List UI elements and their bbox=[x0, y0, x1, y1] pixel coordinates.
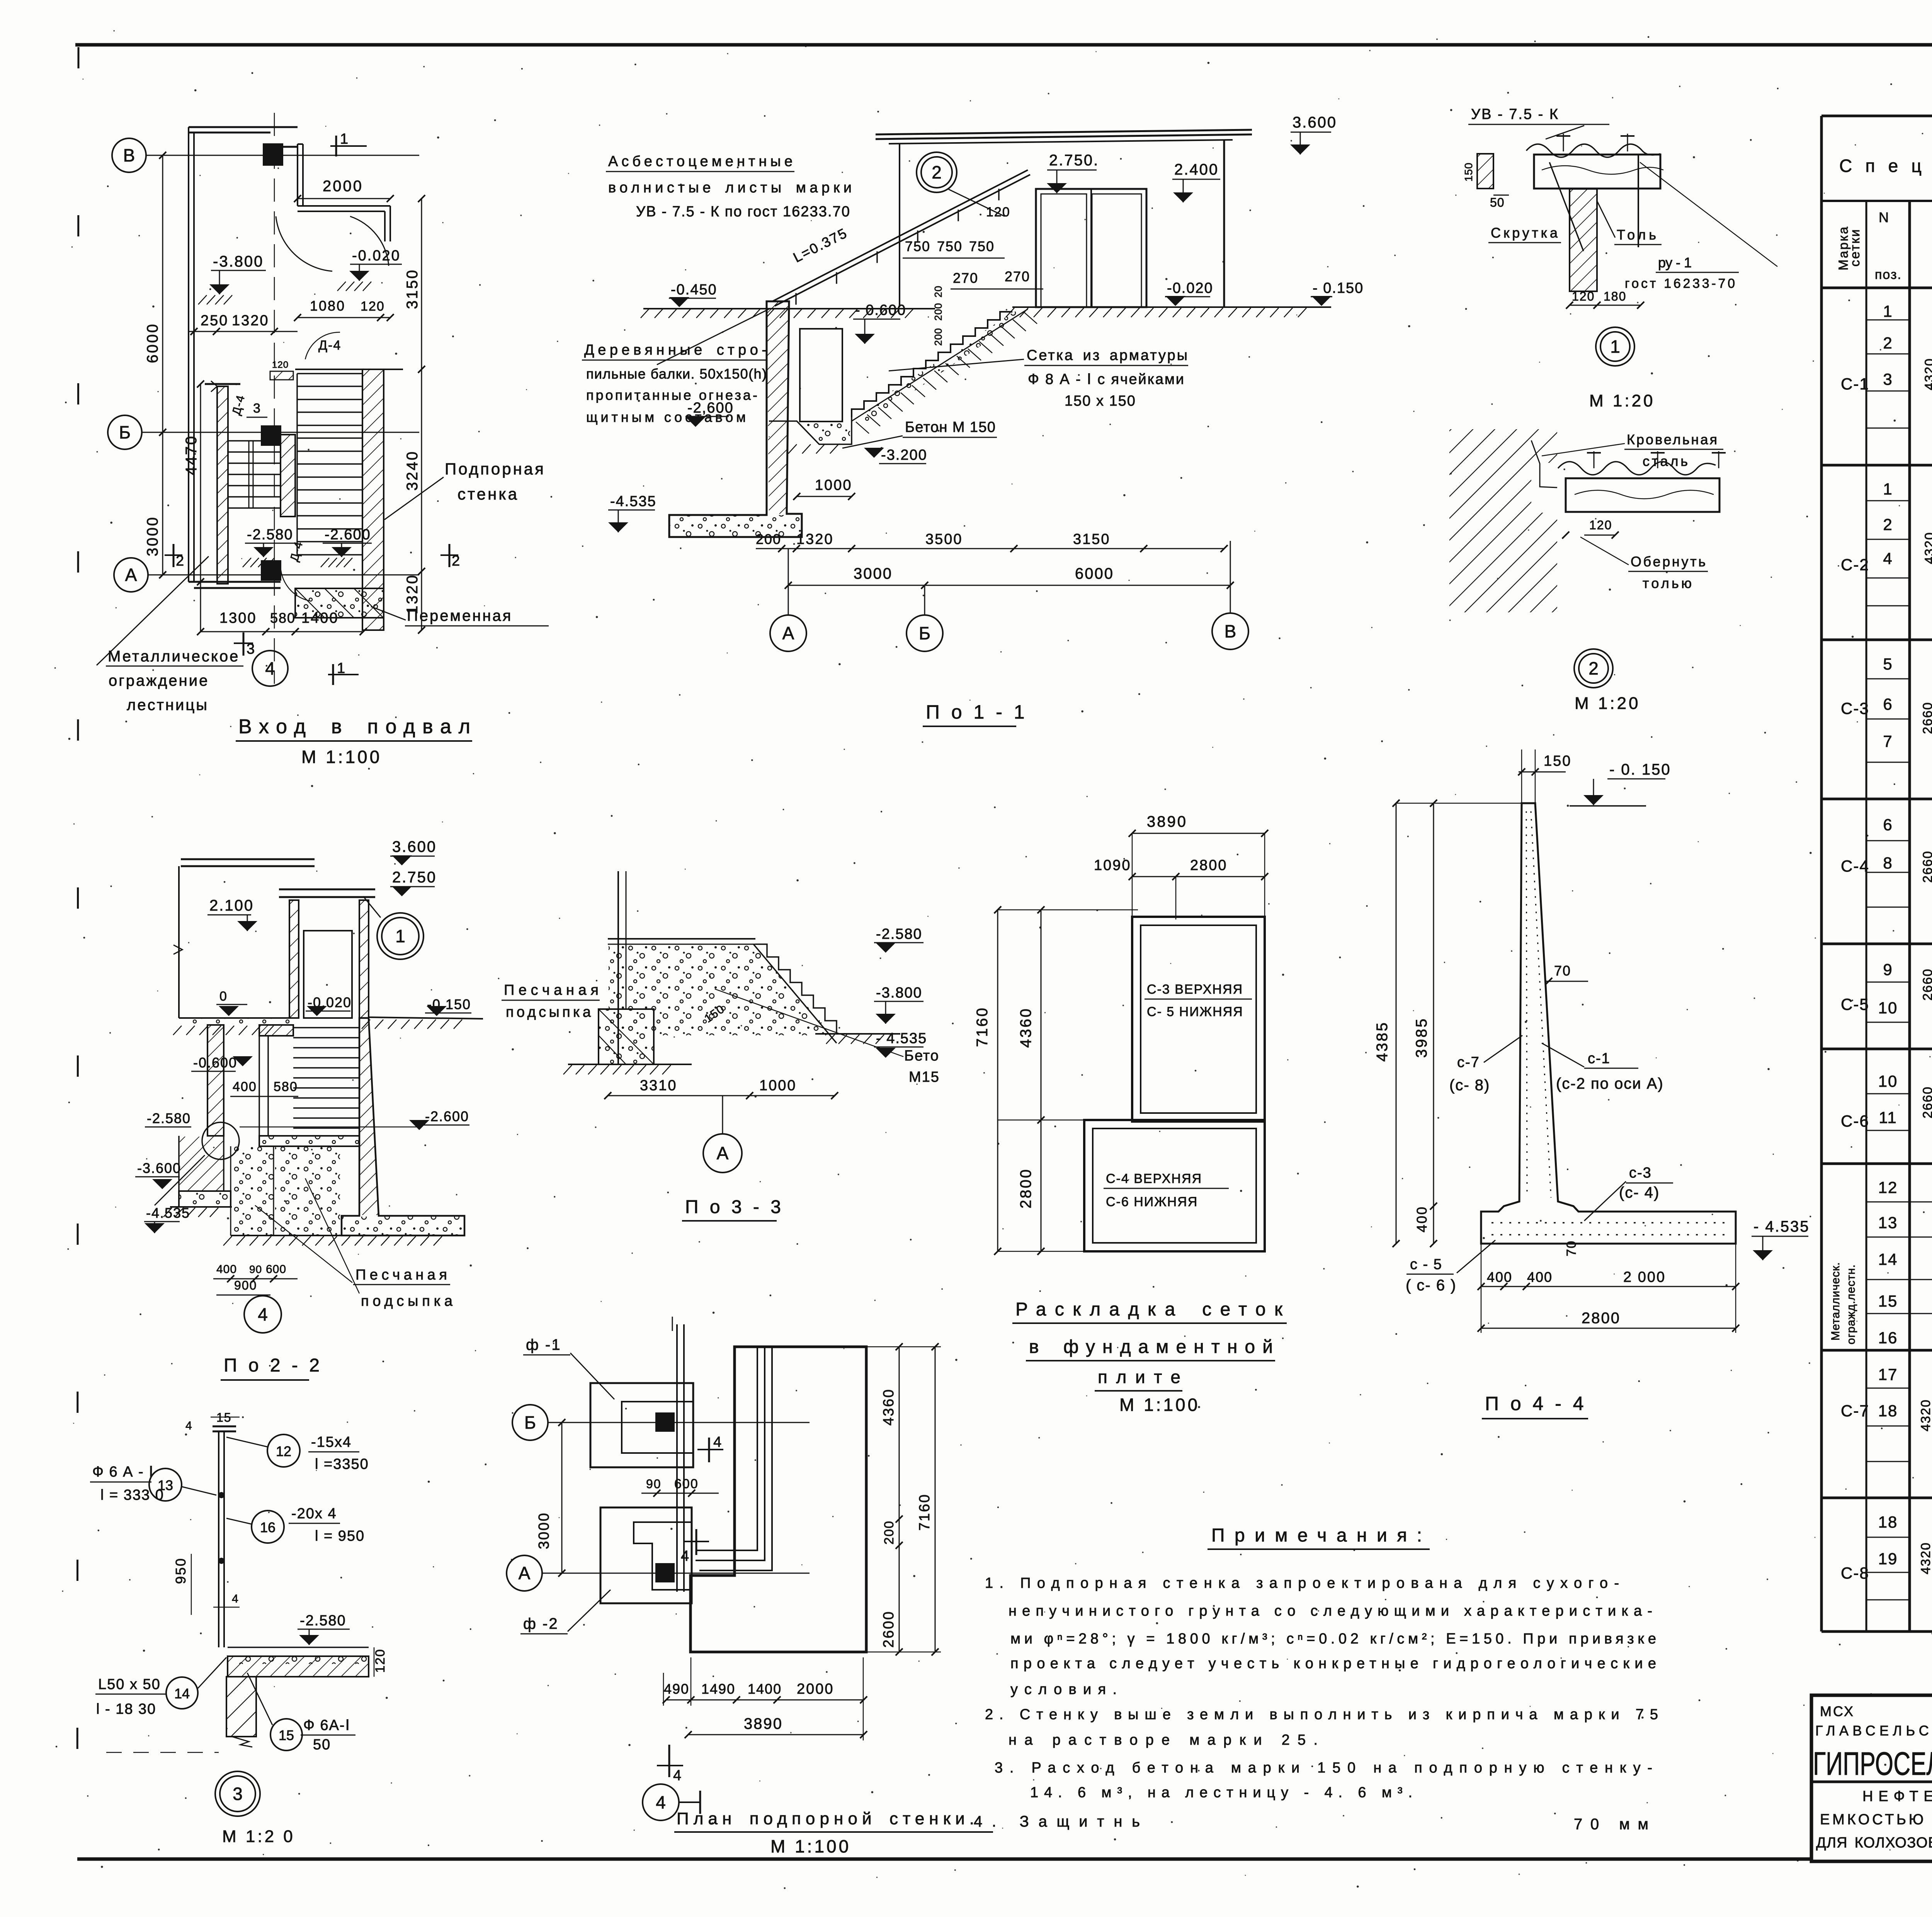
svg-text:l = 950: l = 950 bbox=[315, 1528, 365, 1544]
svg-text:14: 14 bbox=[174, 1686, 190, 1701]
svg-text:17: 17 bbox=[1878, 1365, 1898, 1383]
svg-text:4320: 4320 bbox=[1918, 1542, 1932, 1574]
svg-text:2: 2 bbox=[452, 553, 461, 569]
svg-text:Бетон М 150: Бетон М 150 bbox=[905, 419, 995, 435]
svg-text:7160: 7160 bbox=[974, 1006, 991, 1047]
svg-text:270: 270 bbox=[953, 270, 978, 286]
svg-text:4: 4 bbox=[713, 1434, 722, 1450]
svg-text:поз.: поз. bbox=[1875, 267, 1902, 282]
svg-text:П о 2 - 2: П о 2 - 2 bbox=[224, 1355, 323, 1376]
svg-text:600: 600 bbox=[674, 1477, 699, 1491]
svg-text:С- 5 НИЖНЯЯ: С- 5 НИЖНЯЯ bbox=[1147, 1004, 1243, 1019]
svg-text:490: 490 bbox=[664, 1681, 689, 1697]
svg-text:-4.535: -4.535 bbox=[146, 1205, 190, 1221]
svg-text:Бето: Бето bbox=[904, 1048, 939, 1064]
svg-text:А: А bbox=[717, 1143, 729, 1163]
svg-text:(с- 4): (с- 4) bbox=[1619, 1184, 1660, 1201]
svg-text:10: 10 bbox=[1878, 1072, 1898, 1090]
svg-text:120: 120 bbox=[272, 360, 289, 370]
svg-text:(с-2 по оси А): (с-2 по оси А) bbox=[1556, 1075, 1664, 1092]
svg-text:16: 16 bbox=[260, 1519, 276, 1535]
svg-text:3: 3 bbox=[247, 641, 255, 657]
svg-text:с-3: с-3 bbox=[1629, 1165, 1652, 1181]
svg-text:Подпорная: Подпорная bbox=[445, 460, 546, 478]
svg-text:М15: М15 bbox=[909, 1069, 940, 1085]
svg-text:120: 120 bbox=[986, 205, 1010, 219]
svg-text:П о 1 - 1: П о 1 - 1 bbox=[926, 701, 1028, 723]
svg-text:-0.600: -0.600 bbox=[193, 1055, 237, 1071]
svg-text:С-2: С-2 bbox=[1841, 556, 1869, 574]
svg-text:А: А bbox=[125, 565, 137, 585]
svg-text:- 4.535: - 4.535 bbox=[876, 1030, 927, 1047]
svg-text:М 1:100: М 1:100 bbox=[301, 747, 382, 767]
svg-text:-2.580: -2.580 bbox=[247, 527, 293, 543]
svg-text:2: 2 bbox=[1883, 334, 1893, 352]
svg-text:ограждение: ограждение bbox=[109, 672, 209, 689]
svg-text:стенка: стенка bbox=[457, 485, 519, 503]
svg-text:4: 4 bbox=[185, 1419, 193, 1432]
svg-text:N: N bbox=[1879, 209, 1889, 225]
svg-text:С-6: С-6 bbox=[1841, 1112, 1869, 1130]
svg-text:l =3350: l =3350 bbox=[315, 1456, 369, 1472]
svg-text:150 х 150: 150 х 150 bbox=[1065, 393, 1136, 409]
svg-text:750: 750 bbox=[905, 238, 930, 254]
svg-text:Б: Б bbox=[524, 1412, 536, 1433]
svg-text:6: 6 bbox=[1883, 695, 1893, 713]
svg-text:А: А bbox=[519, 1563, 531, 1583]
svg-text:на растворе марки 25.: на растворе марки 25. bbox=[1009, 1732, 1318, 1748]
svg-text:М 1:100: М 1:100 bbox=[770, 1836, 851, 1856]
svg-text:2 000: 2 000 bbox=[1623, 1269, 1666, 1285]
svg-text:4320: 4320 bbox=[1918, 1399, 1932, 1431]
svg-text:- 0. 150: - 0. 150 bbox=[1609, 761, 1671, 778]
svg-text:70: 70 bbox=[1564, 1240, 1579, 1256]
svg-text:1: 1 bbox=[1610, 336, 1620, 357]
svg-text:50: 50 bbox=[1490, 195, 1505, 209]
svg-text:1320: 1320 bbox=[232, 313, 269, 329]
svg-text:270: 270 bbox=[1005, 269, 1030, 284]
svg-text:2000: 2000 bbox=[797, 1681, 834, 1697]
svg-text:ф -1: ф -1 bbox=[526, 1336, 561, 1353]
svg-text:12: 12 bbox=[1878, 1178, 1898, 1196]
svg-text:-3.600: -3.600 bbox=[137, 1160, 181, 1176]
svg-text:2660: 2660 bbox=[1920, 1086, 1932, 1118]
svg-text:М 1:2 0: М 1:2 0 bbox=[222, 1827, 295, 1846]
svg-text:4: 4 bbox=[265, 658, 275, 678]
svg-text:гост 16233-70: гост 16233-70 bbox=[1625, 276, 1735, 291]
svg-text:15: 15 bbox=[1878, 1292, 1898, 1310]
svg-text:-15х4: -15х4 bbox=[311, 1434, 352, 1450]
svg-text:ГЛАВСЕЛЬСТРОЙПРОЕКТ: ГЛАВСЕЛЬСТРОЙПРОЕКТ bbox=[1815, 1722, 1932, 1739]
svg-text:Б: Б bbox=[919, 623, 930, 643]
svg-text:сталь: сталь bbox=[1643, 453, 1688, 469]
svg-text:-0.450: -0.450 bbox=[671, 282, 717, 298]
svg-text:600: 600 bbox=[266, 1263, 286, 1276]
svg-text:3. Расход бетона марки 150: 3. Расход бетона марки 150 на подпорную … bbox=[995, 1760, 1652, 1776]
svg-text:4470: 4470 bbox=[183, 435, 200, 475]
svg-text:непучинистого грунта со след: непучинистого грунта со следующими харак… bbox=[1009, 1603, 1652, 1619]
svg-text:950: 950 bbox=[173, 1557, 189, 1584]
svg-text:С-1: С-1 bbox=[1841, 375, 1869, 393]
svg-text:Д-4: Д-4 bbox=[318, 338, 341, 353]
svg-text:1400: 1400 bbox=[301, 610, 339, 626]
svg-text:1: 1 bbox=[340, 131, 349, 147]
svg-text:1. Подпорная стенка запроек: 1. Подпорная стенка запроектирована для … bbox=[985, 1575, 1619, 1591]
svg-text:14: 14 bbox=[1878, 1250, 1898, 1268]
svg-text:3000: 3000 bbox=[536, 1512, 552, 1549]
svg-text:120: 120 bbox=[1589, 518, 1612, 532]
svg-text:400: 400 bbox=[1527, 1269, 1553, 1285]
svg-text:2660: 2660 bbox=[1920, 702, 1932, 734]
svg-text:сетки: сетки bbox=[1848, 228, 1862, 267]
svg-text:200: 200 bbox=[756, 531, 781, 547]
svg-text:l - 18 30: l - 18 30 bbox=[96, 1701, 156, 1717]
svg-text:5: 5 bbox=[1883, 655, 1893, 673]
svg-text:С-4: С-4 bbox=[1841, 857, 1869, 875]
svg-text:4: 4 bbox=[232, 1592, 239, 1605]
svg-text:2800: 2800 bbox=[1190, 857, 1228, 874]
svg-text:-2.580: -2.580 bbox=[300, 1613, 346, 1629]
svg-text:7160: 7160 bbox=[917, 1493, 933, 1531]
svg-text:3000: 3000 bbox=[144, 516, 161, 556]
svg-text:1490: 1490 bbox=[701, 1681, 735, 1697]
svg-text:200: 200 bbox=[932, 303, 944, 321]
svg-text:-20х 4: -20х 4 bbox=[291, 1506, 337, 1522]
svg-text:4360: 4360 bbox=[881, 1388, 897, 1426]
svg-text:200: 200 bbox=[932, 328, 944, 346]
svg-text:1080: 1080 bbox=[310, 298, 345, 314]
svg-text:-2.580: -2.580 bbox=[147, 1110, 191, 1126]
svg-text:Б: Б bbox=[119, 422, 131, 442]
svg-text:90: 90 bbox=[249, 1263, 262, 1275]
svg-text:2: 2 bbox=[1588, 658, 1599, 678]
svg-text:6: 6 bbox=[1883, 816, 1893, 834]
svg-text:УВ - 7.5 - К по гост 16233.7: УВ - 7.5 - К по гост 16233.70 bbox=[636, 204, 850, 220]
svg-text:А: А bbox=[782, 623, 794, 643]
svg-text:3000: 3000 bbox=[854, 565, 893, 582]
svg-text:Раскладка сеток: Раскладка сеток bbox=[1015, 1299, 1283, 1320]
svg-text:3240: 3240 bbox=[404, 450, 421, 491]
svg-text:6000: 6000 bbox=[144, 323, 161, 363]
svg-text:400: 400 bbox=[233, 1079, 257, 1094]
svg-text:4: 4 bbox=[673, 1767, 682, 1784]
svg-text:В: В bbox=[123, 145, 135, 165]
svg-text:180: 180 bbox=[1604, 289, 1626, 303]
svg-text:3150: 3150 bbox=[404, 269, 421, 309]
svg-text:900: 900 bbox=[234, 1278, 257, 1292]
svg-text:Металлическое: Металлическое bbox=[108, 648, 240, 665]
svg-text:С-8: С-8 bbox=[1841, 1564, 1869, 1582]
svg-text:П о 4 - 4: П о 4 - 4 bbox=[1485, 1393, 1587, 1414]
svg-text:Асбестоцементные: Асбестоцементные bbox=[608, 153, 793, 170]
svg-text:120: 120 bbox=[361, 299, 385, 314]
svg-text:6000: 6000 bbox=[1075, 565, 1114, 582]
svg-text:2600: 2600 bbox=[881, 1610, 897, 1648]
svg-text:18: 18 bbox=[1878, 1513, 1898, 1531]
svg-text:3890: 3890 bbox=[1147, 813, 1187, 830]
svg-text:2: 2 bbox=[1883, 515, 1893, 534]
svg-text:70: 70 bbox=[1554, 963, 1571, 979]
svg-text:М 1:20: М 1:20 bbox=[1575, 694, 1641, 713]
svg-text:С-5: С-5 bbox=[1841, 995, 1869, 1013]
svg-text:М 1:100: М 1:100 bbox=[1119, 1395, 1200, 1415]
svg-text:2800: 2800 bbox=[1017, 1168, 1034, 1208]
svg-text:-0.020: -0.020 bbox=[1167, 280, 1213, 296]
svg-text:1: 1 bbox=[1883, 480, 1893, 498]
svg-text:9: 9 bbox=[1883, 960, 1893, 979]
svg-text:Металлическ.: Металлическ. bbox=[1829, 1262, 1842, 1341]
svg-text:4320: 4320 bbox=[1922, 532, 1932, 564]
svg-text:1: 1 bbox=[337, 660, 346, 676]
svg-text:4320: 4320 bbox=[1922, 358, 1932, 390]
svg-text:4: 4 bbox=[681, 1548, 690, 1564]
svg-text:-3.800: -3.800 bbox=[213, 253, 264, 270]
svg-text:10: 10 bbox=[1878, 999, 1898, 1017]
svg-text:-2.580: -2.580 bbox=[876, 926, 922, 942]
svg-text:11: 11 bbox=[1879, 1108, 1897, 1127]
svg-text:0: 0 bbox=[219, 989, 228, 1004]
svg-text:1: 1 bbox=[395, 926, 405, 946]
svg-text:М 1:20: М 1:20 bbox=[1589, 391, 1655, 410]
svg-text:4385: 4385 bbox=[1374, 1021, 1391, 1062]
svg-text:2660: 2660 bbox=[1920, 850, 1932, 883]
svg-text:2.750: 2.750 bbox=[392, 869, 437, 886]
svg-text:200: 200 bbox=[882, 1520, 896, 1545]
svg-text:20: 20 bbox=[932, 286, 944, 297]
svg-text:50: 50 bbox=[313, 1737, 331, 1753]
svg-text:УВ - 7.5 - К: УВ - 7.5 - К bbox=[1471, 106, 1559, 122]
svg-text:120: 120 bbox=[373, 1648, 388, 1673]
svg-text:1320: 1320 bbox=[796, 531, 834, 547]
svg-text:С-7: С-7 bbox=[1841, 1402, 1869, 1420]
svg-text:1090: 1090 bbox=[1094, 857, 1131, 874]
svg-text:18: 18 bbox=[1878, 1402, 1898, 1420]
svg-text:16: 16 bbox=[1878, 1329, 1898, 1347]
svg-text:3: 3 bbox=[253, 401, 261, 416]
svg-text:3890: 3890 bbox=[744, 1715, 783, 1732]
svg-text:Переменная: Переменная bbox=[407, 607, 512, 624]
svg-text:120: 120 bbox=[1572, 289, 1595, 303]
svg-text:с-7: с-7 bbox=[1457, 1054, 1480, 1071]
svg-text:4360: 4360 bbox=[1017, 1007, 1034, 1048]
svg-text:-4.535: -4.535 bbox=[610, 493, 656, 510]
svg-text:15: 15 bbox=[279, 1727, 294, 1743]
svg-text:400: 400 bbox=[1487, 1269, 1512, 1285]
svg-text:2.400: 2.400 bbox=[1174, 161, 1219, 178]
svg-text:8: 8 bbox=[1883, 854, 1893, 872]
svg-text:лестницы: лестницы bbox=[127, 697, 209, 714]
svg-text:С-3: С-3 bbox=[1841, 699, 1869, 717]
svg-text:Ф 8 А - Ⅰ с ячейками: Ф 8 А - Ⅰ с ячейками bbox=[1028, 371, 1184, 387]
svg-text:4: 4 bbox=[656, 1792, 666, 1812]
svg-text:ДЛЯ КОЛХОЗОВ И СОВХОЗОВ: ДЛЯ КОЛХОЗОВ И СОВХОЗОВ bbox=[1816, 1835, 1932, 1851]
svg-text:2.100: 2.100 bbox=[209, 897, 254, 914]
svg-text:Ф 6А-Ⅰ: Ф 6А-Ⅰ bbox=[303, 1717, 350, 1733]
svg-text:2800: 2800 bbox=[1582, 1310, 1621, 1327]
svg-text:3310: 3310 bbox=[640, 1077, 677, 1094]
svg-text:19: 19 bbox=[1878, 1550, 1898, 1568]
svg-text:с - 5: с - 5 bbox=[1410, 1256, 1442, 1273]
svg-text:13: 13 bbox=[1878, 1213, 1898, 1232]
svg-text:3.600: 3.600 bbox=[1293, 114, 1337, 131]
svg-text:150: 150 bbox=[1544, 753, 1571, 769]
svg-text:1400: 1400 bbox=[748, 1681, 782, 1697]
svg-text:L50 х 50: L50 х 50 bbox=[98, 1676, 161, 1693]
svg-text:огражд.лестн.: огражд.лестн. bbox=[1845, 1264, 1857, 1344]
svg-text:2: 2 bbox=[176, 553, 185, 569]
svg-text:750: 750 bbox=[969, 238, 995, 254]
svg-text:l = 333 0: l = 333 0 bbox=[100, 1487, 164, 1503]
svg-text:пропитанные огнеза-: пропитанные огнеза- bbox=[586, 387, 757, 403]
svg-text:2: 2 bbox=[932, 162, 942, 182]
svg-text:В: В bbox=[1225, 621, 1236, 641]
svg-text:ГИПРОСЕЛЬХОЗПРОМ: ГИПРОСЕЛЬХОЗПРОМ bbox=[1813, 1745, 1932, 1782]
svg-text:-3.800: -3.800 bbox=[876, 985, 922, 1001]
svg-text:7: 7 bbox=[1883, 732, 1893, 750]
svg-text:3: 3 bbox=[1883, 370, 1893, 388]
svg-text:П о 3 - 3: П о 3 - 3 bbox=[685, 1197, 784, 1217]
svg-text:2000: 2000 bbox=[323, 178, 363, 195]
svg-text:пильные балки. 50х150(h): пильные балки. 50х150(h) bbox=[586, 366, 767, 382]
svg-text:400: 400 bbox=[216, 1263, 237, 1276]
svg-text:400: 400 bbox=[1414, 1206, 1430, 1232]
svg-text:-2.600: -2.600 bbox=[425, 1108, 469, 1124]
svg-text:Сетка из арматуры: Сетка из арматуры bbox=[1027, 347, 1187, 364]
svg-text:750: 750 bbox=[937, 238, 963, 254]
svg-text:волнистые листы марки: волнистые листы марки bbox=[608, 180, 852, 196]
svg-text:2660: 2660 bbox=[1920, 968, 1932, 1001]
svg-text:3: 3 bbox=[233, 1784, 243, 1804]
svg-text:1: 1 bbox=[1883, 302, 1893, 320]
svg-text:4: 4 bbox=[1883, 549, 1893, 568]
svg-text:( с- 6 ): ( с- 6 ) bbox=[1406, 1277, 1457, 1294]
svg-text:250: 250 bbox=[201, 313, 228, 329]
svg-text:-0.020: -0.020 bbox=[352, 248, 401, 264]
svg-text:С-4 ВЕРХНЯЯ: С-4 ВЕРХНЯЯ bbox=[1106, 1171, 1202, 1186]
svg-text:1000: 1000 bbox=[815, 477, 852, 493]
svg-text:- 0.600: - 0.600 bbox=[855, 302, 906, 318]
svg-text:3150: 3150 bbox=[1073, 531, 1111, 547]
svg-text:ф -2: ф -2 bbox=[523, 1615, 559, 1632]
svg-text:3.600: 3.600 bbox=[392, 838, 437, 855]
svg-text:4: 4 bbox=[258, 1304, 268, 1324]
svg-text:- 0.150: - 0.150 bbox=[1313, 280, 1364, 296]
svg-text:с-1: с-1 bbox=[1588, 1050, 1611, 1067]
svg-text:ЕМКОСТЬЮ 300,600 м: ЕМКОСТЬЮ 300,600 м bbox=[1820, 1812, 1932, 1828]
svg-text:МСХ: МСХ bbox=[1820, 1703, 1855, 1719]
svg-text:1300: 1300 bbox=[219, 610, 257, 626]
svg-text:С-3 ВЕРХНЯЯ: С-3 ВЕРХНЯЯ bbox=[1147, 982, 1243, 997]
svg-text:3985: 3985 bbox=[1413, 1017, 1430, 1058]
svg-text:150: 150 bbox=[1463, 162, 1475, 182]
svg-text:ру - 1: ру - 1 bbox=[1658, 255, 1692, 270]
svg-text:С-6 НИЖНЯЯ: С-6 НИЖНЯЯ bbox=[1106, 1195, 1198, 1209]
svg-text:580: 580 bbox=[274, 1079, 298, 1094]
svg-text:-3.200: -3.200 bbox=[881, 447, 927, 463]
svg-text:90: 90 bbox=[646, 1477, 662, 1491]
svg-text:12: 12 bbox=[276, 1443, 291, 1459]
svg-text:3500: 3500 bbox=[925, 531, 963, 547]
svg-text:1000: 1000 bbox=[759, 1077, 797, 1094]
svg-text:(с- 8): (с- 8) bbox=[1449, 1077, 1490, 1094]
svg-text:580: 580 bbox=[270, 610, 296, 626]
svg-text:-2.600: -2.600 bbox=[325, 527, 371, 543]
svg-text:2.750.: 2.750. bbox=[1049, 152, 1099, 169]
svg-text:Ф 6 А - Ⅰ: Ф 6 А - Ⅰ bbox=[92, 1464, 154, 1480]
svg-text:- 4.535: - 4.535 bbox=[1753, 1218, 1810, 1235]
